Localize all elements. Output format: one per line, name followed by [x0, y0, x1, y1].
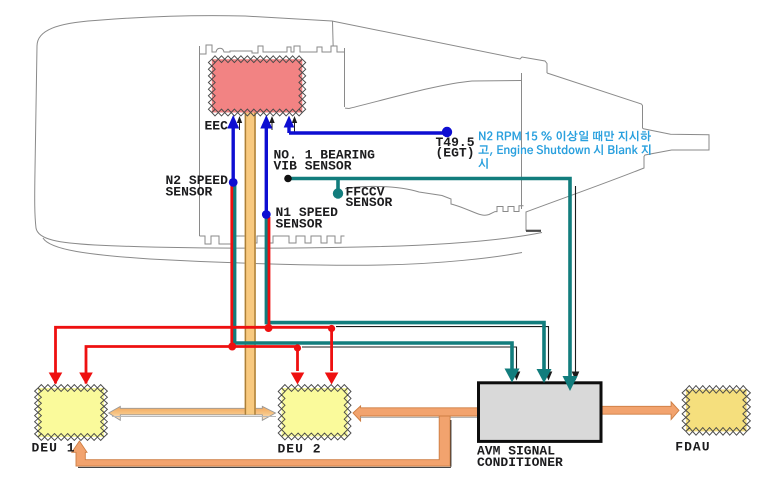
red bus H1 to DEU arrows: [56, 327, 332, 383]
blue wire: EGT probe to EEC: [289, 127, 445, 133]
svg-text:EEC: EEC: [205, 119, 229, 134]
pylon strip (white masked band with castellated edges): [199, 45, 345, 244]
orange EEC feed band (vertical): [245, 112, 256, 415]
blue wire: N2 sensor to EEC: [231, 128, 234, 180]
svg-text:FDAU: FDAU: [675, 440, 710, 455]
orange data bus DEU1-DEU2 (double arrow): [109, 406, 276, 420]
FFCCV sensor stub and dot: [336, 179, 340, 191]
orange bus AVM to DEU2: [353, 406, 482, 421]
svg-text:DEU 1: DEU 1: [32, 441, 76, 456]
svg-text:VIB SENSOR: VIB SENSOR: [274, 159, 352, 174]
engine nacelle outline: [35, 16, 709, 266]
thin black companion lines to AVM: [302, 186, 576, 372]
svg-text:SENSOR: SENSOR: [346, 195, 393, 210]
FDAU box: [682, 386, 750, 436]
orange feedback path to DEU1 (down, left, up-arrow): [72, 416, 450, 466]
black companion arrows at EEC: [240, 122, 295, 132]
svg-text:(EGT): (EGT): [436, 146, 475, 161]
red wire: N2 sensor down: [230, 184, 233, 347]
DEU 1 box: [35, 385, 108, 441]
EEC box: [208, 56, 305, 116]
vib sensor node (black dot): [284, 175, 292, 183]
blue wire: N1 sensor to EEC: [265, 128, 268, 212]
teal wire B: N1 sensor to AVM: [266, 217, 544, 371]
red bus H2 to DEU arrows: [86, 347, 298, 384]
svg-text:SENSOR: SENSOR: [166, 185, 213, 200]
red wire: N1 sensor down: [268, 217, 271, 327]
DEU 2 box: [278, 385, 351, 440]
AVM signal conditioner box: [479, 383, 602, 442]
svg-text:CONDITIONER: CONDITIONER: [477, 455, 563, 470]
orange bus AVM to FDAU: [602, 402, 679, 420]
korean annotation (vector paths inserted here): [478, 131, 651, 169]
svg-text:DEU 2: DEU 2: [278, 442, 322, 457]
teal wire A: N2 sensor to AVM: [235, 184, 512, 371]
teal wire C: vib sensors to AVM: [288, 179, 570, 377]
svg-text:SENSOR: SENSOR: [276, 217, 323, 232]
